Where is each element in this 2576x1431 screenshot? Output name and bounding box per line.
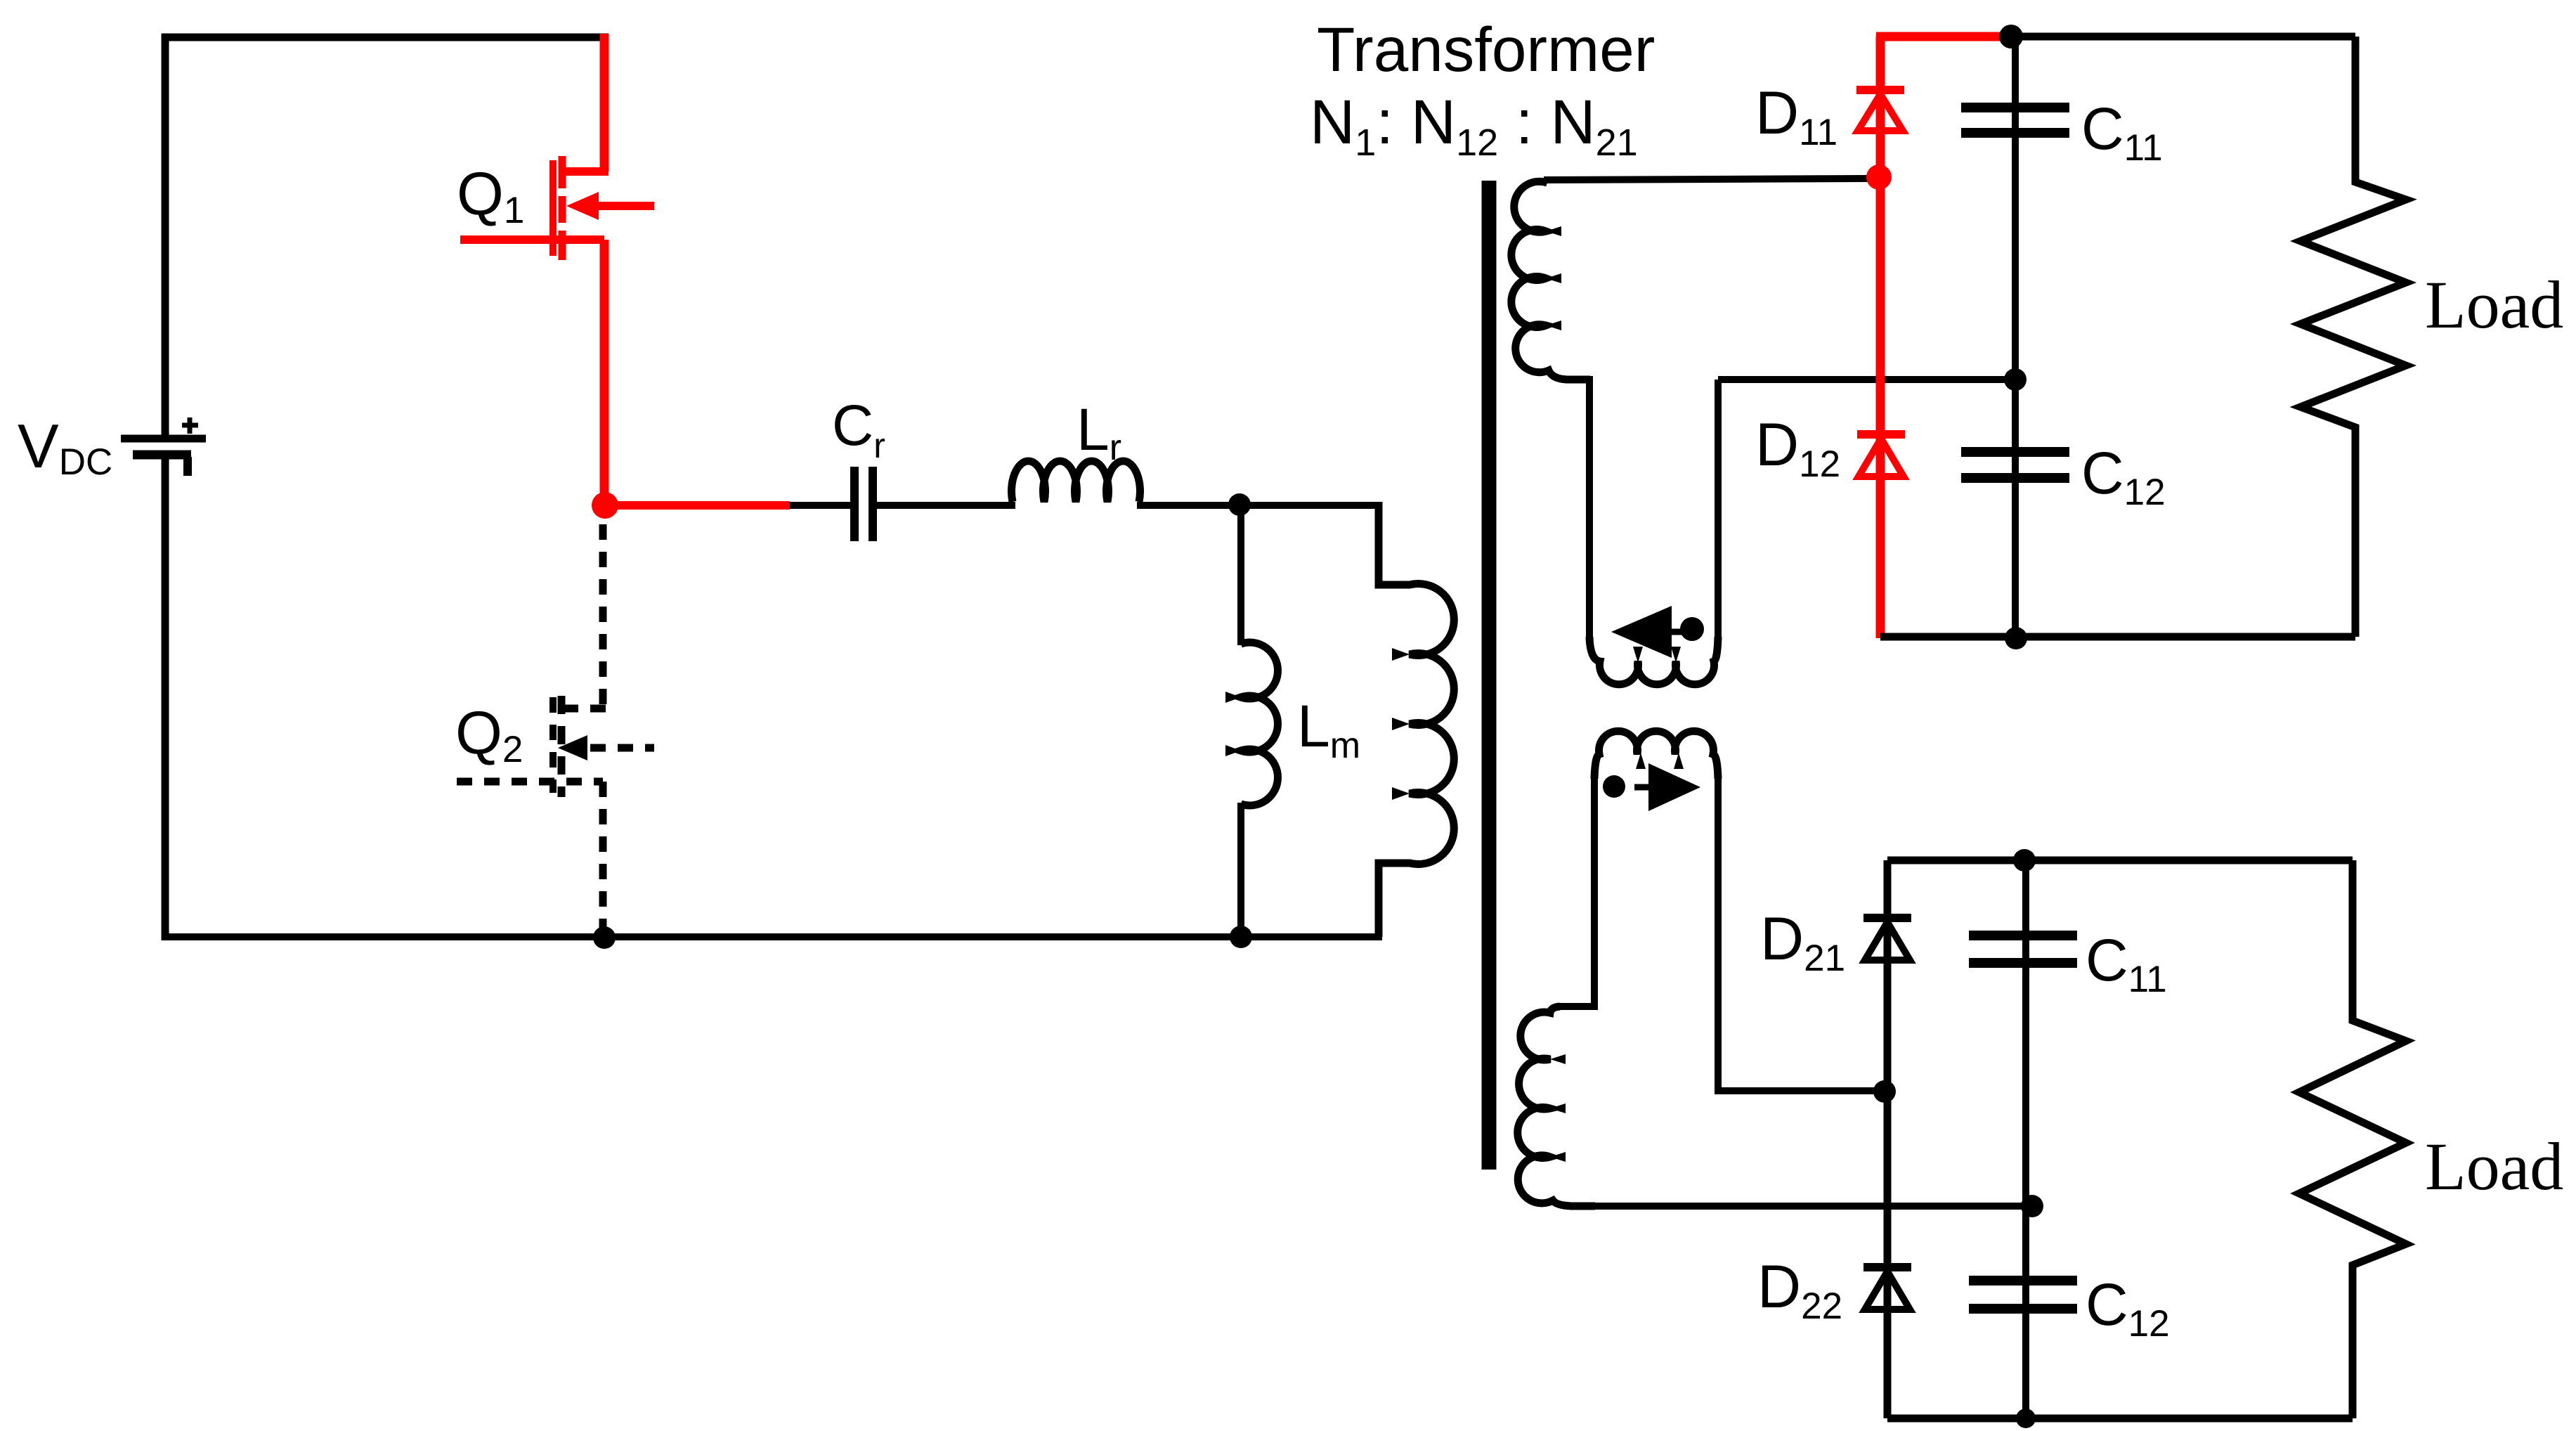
rectifier1 red branch [1876, 37, 2011, 638]
winding N1 primary arcs [1410, 583, 1454, 864]
winding N12 curl arrow [1611, 606, 1672, 658]
node rect1 top [1999, 25, 2023, 48]
wire rect2 bottom [1887, 1415, 2353, 1423]
wire rect1 cap branch [2012, 37, 2019, 638]
winding N21 curl cusp spikes [1636, 753, 1646, 769]
inductor Lr [1012, 461, 1140, 502]
node A red junction [592, 492, 618, 519]
winding N1 cusp spikes [1392, 648, 1410, 661]
wire left rail upper [162, 34, 169, 439]
wire Lr to primary [1137, 502, 1379, 509]
inductor Lm cusp spikes [1225, 692, 1241, 703]
wire mid black to Cr [790, 502, 852, 509]
node rect2 C mid [2021, 1195, 2043, 1217]
node Lm junction [1228, 493, 1251, 516]
winding N12 lower curl [1589, 637, 1718, 685]
wire N12 bottom lead down [1586, 376, 1593, 642]
diode D11 [1856, 90, 1904, 131]
wire bottom rail [162, 933, 1382, 940]
load 1 resistor [2301, 37, 2406, 637]
node rect1 C mid [2004, 368, 2027, 391]
capacitor C12 top rect [1961, 452, 2069, 478]
battery minus tick [183, 457, 192, 476]
wire to C mid rect1 [1718, 376, 2015, 383]
wire rect2 cap branch [2022, 860, 2029, 1418]
rectifier2 D branch [1884, 860, 1892, 1418]
diode D22 [1863, 1267, 1911, 1309]
node bottom of Q2 [593, 926, 616, 949]
wire curl right lead up [1715, 380, 1722, 641]
node Lm bottom junction [1230, 926, 1252, 948]
capacitor Cr [854, 467, 873, 541]
transformer core [1482, 181, 1497, 1170]
node rect2 bottom [2016, 1409, 2036, 1428]
wire top rail [162, 34, 609, 41]
wire left rail lower [162, 454, 169, 940]
wire Cr to Lr [876, 502, 1015, 509]
node D mid red [1866, 164, 1892, 190]
node rect2 top [2013, 849, 2036, 872]
winding N12 polarity dot [1680, 617, 1704, 641]
wire N21 right lead down [1718, 776, 1887, 1091]
node rect2 D mid [1873, 1080, 1896, 1103]
winding N21 top curl [1594, 731, 1718, 779]
winding N21 cusp spikes [1550, 1054, 1566, 1064]
diode D12 [1857, 434, 1905, 477]
capacitor C11 top [1961, 108, 2069, 133]
inductor Lm [1241, 501, 1277, 940]
wire N21 bottom lead [1592, 1203, 2032, 1210]
winding N12 curl cusp spikes [1633, 647, 1643, 663]
winding N12 arcs [1511, 181, 1590, 380]
wire red mid [605, 501, 790, 510]
wire rect2 top [1887, 857, 2353, 865]
winding N1 bottom lead [1379, 863, 1411, 937]
battery plus mark [182, 417, 198, 434]
capacitor C12 bottom rect [1969, 1281, 2077, 1309]
winding N21 curl arrow [1634, 784, 1651, 791]
wire N12 top lead [1544, 179, 1869, 180]
load 2 resistor [2299, 860, 2406, 1418]
wire rect1 bottom [1880, 633, 2355, 641]
transistor Q2 arrow [558, 735, 587, 760]
transistor Q1 [460, 34, 654, 499]
winding N1 primary leads [1379, 502, 1411, 585]
node rect1 bottom [2005, 627, 2027, 649]
svg-text:Load: Load [2425, 1129, 2563, 1204]
battery VDC plate short [133, 451, 191, 460]
wire rect1 top black [2006, 33, 2355, 41]
winding N21 arcs [1518, 1006, 1595, 1206]
transistor Q2 dashed [457, 524, 654, 935]
wire N21 jog [1559, 1003, 1598, 1010]
winding N21 polarity dot [1603, 775, 1625, 798]
diode D21 [1863, 918, 1911, 960]
svg-text:Load: Load [2425, 267, 2563, 342]
wire N21 left lead [1591, 776, 1598, 1006]
winding N12 cusp spikes [1546, 226, 1561, 236]
capacitor C11 bottom rect [1969, 935, 2077, 963]
svg-text:Transformer: Transformer [1317, 14, 1655, 84]
battery VDC plate long [121, 435, 206, 443]
